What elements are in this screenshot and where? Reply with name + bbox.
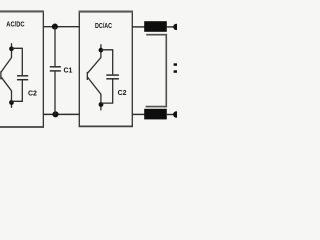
wire output bottom phase (132, 113, 145, 115)
transistor Q2 (inside DC/AC block) (87, 44, 101, 110)
capacitor C1 (DC link) (50, 27, 61, 115)
block DC/AC (right box) (78, 11, 80, 127)
block DC/AC top edge (79, 11, 133, 13)
wire bottom DC rail between boxes (43, 113, 79, 115)
wire top DC rail between boxes (43, 26, 79, 28)
wire inductor L1 to terminal (166, 26, 175, 28)
svg-text:C2: C2 (28, 90, 37, 97)
node junction bottom rail (52, 111, 58, 117)
svg-text:C2: C2 (118, 90, 127, 97)
node junction top rail (52, 24, 58, 30)
capacitor C2 (inside AC/DC block) (12, 48, 29, 101)
wire secondary loop (offset conductor behind inductors) (146, 35, 167, 107)
node emitter dot Q1 (9, 100, 14, 105)
wire output top phase (132, 26, 145, 28)
block AC/DC (left box, cut off at image left edge) (0, 126, 44, 128)
node collector dot Q1 (9, 46, 14, 51)
wire inductor L2 to terminal (166, 114, 175, 116)
svg-text:AC/DC: AC/DC (6, 22, 24, 29)
node emitter dot Q2 (99, 102, 104, 107)
node terminal top (173, 24, 179, 30)
svg-text:DC/AC: DC/AC (95, 23, 112, 30)
inductor L1 (top, filled) (144, 21, 167, 32)
svg-text:C1: C1 (64, 67, 73, 74)
capacitor (filter, cut off at right edge) (174, 63, 178, 66)
node collector dot Q2 (99, 48, 104, 53)
node terminal bottom (173, 111, 179, 117)
block AC/DC top edge (0, 10, 44, 12)
transistor Q1 (inside AC/DC block) (1, 43, 12, 108)
capacitor C2 (inside DC/AC block) (101, 50, 119, 103)
inductor L2 (bottom, filled) (144, 109, 167, 120)
